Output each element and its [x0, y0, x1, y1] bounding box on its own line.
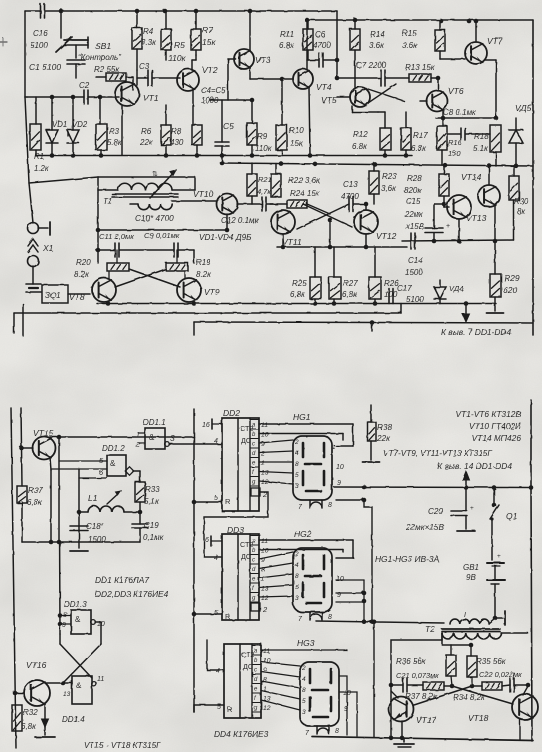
svg-text:1.2к: 1.2к	[34, 164, 49, 173]
svg-text:3.6к: 3.6к	[369, 41, 385, 50]
svg-text:6,8к: 6,8к	[21, 722, 37, 731]
svg-text:VТ18: VТ18	[468, 713, 489, 723]
svg-text:GВ1: GВ1	[463, 563, 479, 572]
svg-text:5100: 5100	[30, 41, 48, 50]
svg-text:9: 9	[261, 441, 265, 448]
svg-text:5,1к: 5,1к	[144, 497, 160, 506]
svg-text:4700: 4700	[341, 192, 359, 201]
svg-text:VТ3: VТ3	[255, 55, 271, 65]
svg-text:DD1.3: DD1.3	[64, 600, 87, 609]
svg-text:R: R	[225, 612, 231, 621]
svg-text:5: 5	[217, 704, 221, 711]
svg-text:5: 5	[295, 472, 299, 479]
svg-text:VТ7-VТ9, VТ11-VТ13 КТ315Г: VТ7-VТ9, VТ11-VТ13 КТ315Г	[383, 449, 492, 458]
svg-text:9: 9	[337, 480, 341, 487]
svg-text:R21: R21	[258, 175, 272, 184]
svg-text:Т1: Т1	[103, 197, 112, 206]
svg-text:VД4: VД4	[449, 284, 463, 293]
svg-text:R5: R5	[174, 40, 185, 50]
svg-text:R10: R10	[289, 126, 304, 135]
svg-text:VТ12: VТ12	[376, 231, 397, 241]
svg-text:8: 8	[328, 614, 332, 621]
svg-text:ДС: ДС	[241, 436, 251, 445]
svg-text:VТ2: VТ2	[202, 65, 218, 75]
svg-text:620: 620	[503, 285, 517, 295]
svg-text:С10* 4700: С10* 4700	[135, 214, 174, 223]
svg-text:6: 6	[205, 537, 209, 544]
svg-text:8: 8	[335, 728, 339, 735]
svg-text:c: c	[252, 558, 255, 564]
svg-text:6,8к: 6,8к	[27, 498, 43, 507]
svg-text:VТ10 ГТ402И: VТ10 ГТ402И	[469, 421, 521, 431]
svg-text:ДС: ДС	[243, 662, 253, 671]
svg-text:R16: R16	[448, 138, 463, 147]
svg-text:11: 11	[97, 676, 104, 683]
svg-text:С2: С2	[79, 81, 90, 90]
svg-text:С22 0,022мк: С22 0,022мк	[479, 670, 522, 679]
svg-text:15к: 15к	[202, 37, 216, 47]
svg-text:С7 2200: С7 2200	[356, 61, 387, 70]
svg-text:6,8к: 6,8к	[290, 290, 306, 299]
svg-text:VТ8: VТ8	[69, 292, 85, 302]
svg-text:16: 16	[202, 422, 210, 429]
svg-text:DD2: DD2	[223, 408, 240, 418]
svg-text:R18: R18	[474, 132, 489, 141]
svg-text:3.3к: 3.3к	[141, 38, 157, 47]
svg-text:1: 1	[261, 460, 265, 467]
svg-text:I: I	[464, 612, 466, 619]
svg-text:10: 10	[261, 431, 269, 438]
svg-text:2: 2	[294, 439, 299, 446]
svg-text:VТ1-VТ6 КТ312В: VТ1-VТ6 КТ312В	[456, 409, 522, 419]
svg-text:4: 4	[302, 676, 306, 683]
svg-text:22мк×15В: 22мк×15В	[405, 523, 444, 532]
svg-text:R20: R20	[76, 258, 91, 267]
svg-text:110к: 110к	[255, 144, 273, 153]
svg-text:22к: 22к	[139, 138, 154, 147]
svg-text:5.8к: 5.8к	[107, 138, 122, 147]
svg-text:8: 8	[328, 502, 332, 509]
svg-text:R11: R11	[280, 30, 294, 39]
svg-text:R22 3,6к: R22 3,6к	[288, 176, 321, 185]
svg-text:R24 15к: R24 15к	[290, 189, 321, 198]
svg-text:&: &	[149, 433, 155, 442]
svg-text:R12: R12	[353, 130, 368, 139]
svg-text:2: 2	[260, 450, 265, 457]
svg-text:R4: R4	[143, 27, 154, 36]
svg-text:3: 3	[170, 433, 175, 443]
svg-text:VТ14 МП426: VТ14 МП426	[472, 433, 522, 443]
svg-text:R: R	[227, 705, 233, 714]
svg-text:DD1 К176ЛА7: DD1 К176ЛА7	[95, 575, 149, 585]
svg-text:R14: R14	[370, 30, 385, 39]
svg-text:9: 9	[62, 622, 66, 629]
svg-text:15к: 15к	[290, 139, 304, 148]
svg-text:R30: R30	[514, 197, 529, 206]
svg-text:R35 56к: R35 56к	[476, 657, 507, 666]
svg-text:R7: R7	[202, 25, 213, 35]
svg-text:&: &	[76, 681, 82, 690]
svg-text:R29: R29	[504, 273, 520, 283]
svg-text:VD1-VD4 Д9Б: VD1-VD4 Д9Б	[199, 233, 252, 242]
svg-text:С5: С5	[223, 121, 234, 131]
svg-text:R19: R19	[196, 258, 211, 267]
svg-text:13: 13	[261, 469, 269, 476]
svg-text:С18*: С18*	[86, 522, 105, 531]
svg-text:R32: R32	[23, 708, 38, 717]
svg-text:VТ7: VТ7	[487, 36, 503, 46]
svg-text:110к: 110к	[168, 53, 187, 63]
svg-text:Т2: Т2	[425, 624, 435, 634]
svg-text:С14: С14	[408, 256, 423, 265]
svg-text:8.2к: 8.2к	[74, 270, 90, 279]
svg-text:К выв. 7 DD1-DD4: К выв. 7 DD1-DD4	[441, 327, 511, 337]
svg-text:4700: 4700	[313, 41, 331, 50]
svg-text:R: R	[225, 497, 231, 506]
svg-text:DD1.2: DD1.2	[102, 444, 125, 453]
svg-text:ДС: ДС	[241, 552, 251, 561]
svg-text:4: 4	[214, 555, 218, 562]
svg-text:5100: 5100	[406, 295, 424, 304]
svg-text:3: 3	[295, 595, 299, 602]
svg-text:R38: R38	[377, 423, 392, 432]
svg-text:3,6к: 3,6к	[381, 184, 397, 193]
svg-text:2: 2	[294, 551, 299, 558]
svg-text:Х1: Х1	[42, 243, 54, 253]
svg-text:х15В: х15В	[405, 222, 424, 231]
svg-text:R17: R17	[413, 131, 428, 140]
svg-text:5.1к: 5.1к	[473, 144, 489, 153]
svg-text:8: 8	[295, 573, 299, 580]
svg-text:VТ4: VТ4	[316, 82, 332, 92]
svg-text:R23: R23	[382, 172, 397, 181]
svg-text:R1: R1	[34, 152, 44, 161]
svg-text:С16: С16	[33, 29, 48, 38]
svg-text:С20: С20	[428, 507, 443, 516]
svg-text:8: 8	[295, 461, 299, 468]
svg-text:VD1: VD1	[52, 120, 67, 129]
svg-text:6,8к: 6,8к	[342, 290, 358, 299]
svg-text:С4=С5: С4=С5	[201, 86, 226, 95]
svg-text:9В: 9В	[466, 573, 476, 582]
svg-text:R3: R3	[109, 127, 120, 136]
svg-text:+: +	[497, 553, 501, 560]
svg-text:ЗQ1: ЗQ1	[45, 291, 61, 300]
svg-text:С1 5100: С1 5100	[29, 62, 61, 72]
svg-text:12: 12	[263, 705, 271, 712]
svg-text:DD1.4: DD1.4	[62, 715, 85, 724]
svg-text:c: c	[252, 442, 255, 448]
svg-text:&: &	[110, 459, 116, 468]
svg-text:SB1: SB1	[95, 41, 111, 51]
svg-text:6.8к: 6.8к	[352, 142, 368, 151]
svg-text:R28: R28	[407, 174, 422, 183]
svg-text:С11 2,0мк: С11 2,0мк	[99, 232, 134, 241]
svg-text:R6: R6	[141, 127, 152, 136]
svg-text:6.8к: 6.8к	[411, 144, 427, 153]
svg-text:+: +	[470, 505, 474, 512]
svg-text:DD2,DD3 К176ИЕ4: DD2,DD3 К176ИЕ4	[95, 589, 169, 599]
svg-text:VD2: VD2	[72, 120, 88, 129]
svg-text:VТ13: VТ13	[466, 213, 487, 223]
svg-text:HG2: HG2	[294, 529, 312, 539]
svg-text:22мк: 22мк	[404, 210, 423, 219]
svg-text:12: 12	[261, 595, 269, 602]
svg-text:Q1: Q1	[506, 511, 518, 521]
svg-text:L1: L1	[88, 493, 98, 503]
svg-text:VТ14: VТ14	[461, 172, 482, 182]
svg-text:R9: R9	[257, 132, 268, 141]
svg-text:VТ1: VТ1	[143, 93, 159, 103]
svg-text:0,1мк: 0,1мк	[143, 533, 165, 542]
svg-text:4: 4	[214, 438, 218, 445]
svg-text:3.6к: 3.6к	[402, 41, 418, 50]
svg-text:VТ10: VТ10	[193, 189, 214, 199]
svg-text:22к: 22к	[376, 434, 391, 443]
svg-text:430: 430	[170, 138, 184, 147]
svg-text:4: 4	[295, 450, 299, 457]
svg-text:R25: R25	[292, 279, 307, 288]
svg-text:VТ17: VТ17	[416, 715, 437, 725]
svg-text:С9 0,01мк: С9 0,01мк	[144, 231, 180, 240]
svg-text:R8: R8	[171, 127, 182, 136]
svg-text:СТ2: СТ2	[241, 650, 254, 659]
svg-text:13: 13	[63, 691, 71, 698]
svg-text:С17: С17	[397, 284, 412, 293]
svg-text:VТ11: VТ11	[282, 237, 302, 247]
svg-text:820к: 820к	[404, 186, 422, 195]
svg-text:3: 3	[295, 483, 299, 490]
svg-text:VТ16: VТ16	[26, 660, 47, 670]
svg-text:R34 8,2к: R34 8,2к	[453, 693, 486, 702]
svg-text:СТ2: СТ2	[240, 540, 253, 549]
svg-text:&: &	[75, 615, 81, 624]
svg-text:⇅: ⇅	[152, 171, 158, 178]
svg-text:VТ5: VТ5	[321, 95, 337, 105]
svg-text:5: 5	[302, 698, 306, 705]
svg-text:8: 8	[302, 687, 306, 694]
svg-text:С8 0.1мк: С8 0.1мк	[443, 108, 477, 117]
svg-text:VТ6: VТ6	[448, 86, 464, 96]
svg-text:К выв. 14 DD1-DD4: К выв. 14 DD1-DD4	[437, 461, 512, 471]
svg-text:R13 15к: R13 15к	[405, 63, 436, 72]
svg-text:R36 56к: R36 56к	[396, 657, 427, 666]
svg-text:4: 4	[295, 562, 299, 569]
svg-text:VТ9: VТ9	[204, 287, 220, 297]
svg-text:10: 10	[261, 547, 269, 554]
svg-text:8.2к: 8.2к	[196, 270, 212, 279]
svg-text:2: 2	[301, 665, 306, 672]
svg-text:11: 11	[261, 538, 268, 545]
svg-text:5: 5	[214, 610, 218, 617]
svg-text:5: 5	[214, 495, 218, 502]
svg-text:5: 5	[295, 584, 299, 591]
svg-text:11: 11	[263, 648, 270, 655]
svg-text:R15: R15	[402, 29, 417, 38]
svg-text:VД5: VД5	[515, 103, 532, 113]
svg-text:150: 150	[448, 149, 461, 158]
svg-text:С6: С6	[315, 30, 326, 39]
svg-text:1500: 1500	[405, 268, 423, 277]
svg-text:VТ15 - VТ18 КТ315Г: VТ15 - VТ18 КТ315Г	[84, 741, 161, 750]
svg-text:4,7к: 4,7к	[257, 187, 271, 196]
svg-text:10: 10	[336, 464, 344, 471]
svg-text:11: 11	[261, 422, 268, 429]
svg-text:DD1.1: DD1.1	[143, 418, 166, 427]
svg-text:НG1-НG3 ИВ-3А: НG1-НG3 ИВ-3А	[375, 554, 440, 564]
svg-text:2: 2	[262, 605, 268, 614]
svg-text:+: +	[446, 223, 450, 230]
svg-text:R27: R27	[343, 279, 358, 288]
svg-text:4: 4	[216, 668, 220, 675]
svg-text:DD4 К176ИЕ3: DD4 К176ИЕ3	[214, 729, 269, 739]
svg-text:6.8к: 6.8к	[279, 41, 295, 50]
svg-text:СТ2: СТ2	[240, 424, 253, 433]
svg-text:3: 3	[302, 709, 306, 716]
svg-text:100: 100	[384, 290, 398, 299]
svg-text:С15: С15	[406, 197, 421, 206]
svg-text:С13: С13	[343, 180, 358, 189]
svg-text:c: c	[254, 668, 257, 674]
svg-text:8к: 8к	[517, 207, 525, 216]
svg-text:R37: R37	[28, 486, 43, 495]
svg-text:HG1: HG1	[293, 412, 311, 422]
svg-text:НG3: НG3	[297, 638, 315, 648]
svg-text:1: 1	[332, 444, 336, 451]
svg-text:R33: R33	[145, 485, 160, 494]
